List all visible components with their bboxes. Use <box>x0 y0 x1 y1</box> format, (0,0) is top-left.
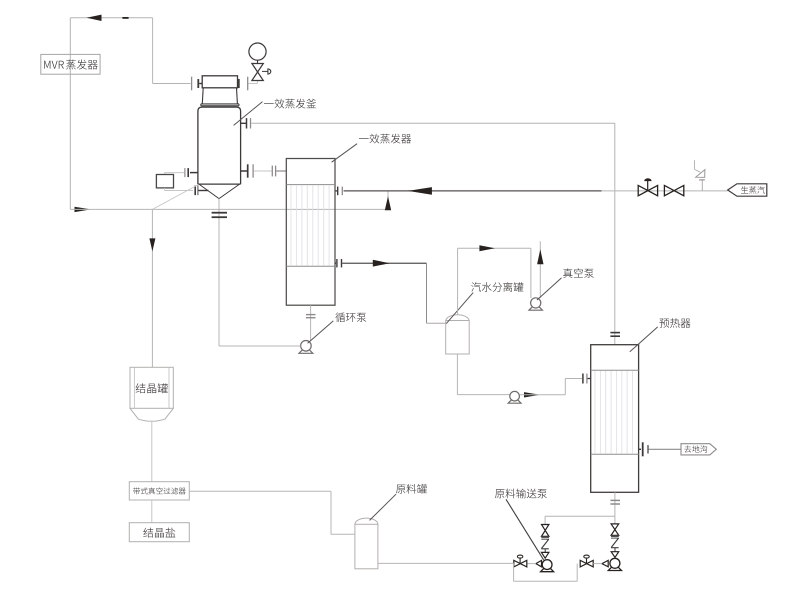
label box MVR evaporator <box>41 54 100 74</box>
wire instrument box to cone flange <box>164 188 166 191</box>
wire crystallizer to filter <box>151 421 153 482</box>
preheater bottom flange bars <box>610 499 620 501</box>
wire standby bypass loop <box>513 564 515 582</box>
flange column steam nozzle <box>335 190 337 192</box>
arrow down to crystallizer <box>149 238 155 251</box>
valve V1 with actuator on steam line <box>638 185 648 195</box>
wire vapor line horizontal y123 <box>251 122 615 124</box>
label text MVR蒸发器 <box>44 61 64 69</box>
leader 一效蒸发釜 <box>234 102 263 126</box>
flag 生蒸汽 raw steam <box>728 184 767 196</box>
flange preheater left nozzle <box>582 374 584 384</box>
tank 结晶罐 <box>130 367 173 408</box>
pump 循环泵 <box>301 341 312 352</box>
reducer right stack <box>614 548 616 552</box>
flange right stack <box>611 536 619 538</box>
box 结晶盐 crystal salt <box>129 523 189 542</box>
wire vapor line vertical x614.8 <box>614 123 616 344</box>
label 一效蒸发器 <box>359 134 411 144</box>
leader 真空泵 <box>537 278 562 300</box>
leader 汽水分离罐 <box>446 293 473 324</box>
flange preheater top nozzle <box>610 332 620 334</box>
pump condensate <box>510 391 520 401</box>
arrow left on steam line <box>408 187 432 195</box>
flex hose right stack <box>611 538 618 548</box>
column bottom flange bars <box>306 314 316 316</box>
column tube sheet lines <box>286 184 335 186</box>
wire vessel drain down <box>218 199 220 346</box>
vessel top-right nozzle flange <box>237 83 240 85</box>
vessel 一效蒸发釜 top head rectangle <box>202 76 237 88</box>
flange pair at column feed inlet <box>271 166 273 177</box>
label 带式真空过滤器 <box>133 487 186 494</box>
column bottom nozzle <box>310 305 312 341</box>
vessel neck <box>201 88 204 104</box>
pump 原料输送泵 right <box>610 558 620 568</box>
leader 一效蒸发器 <box>332 144 358 163</box>
wire MVR loop top horizontal <box>70 17 152 19</box>
relief fitting on steam line <box>701 180 703 191</box>
label 一效蒸发釜 <box>264 99 316 109</box>
suction reducer right pump <box>602 560 608 566</box>
vent valve with gauge circle <box>249 43 266 60</box>
instrument box <box>156 175 173 188</box>
separator 汽水分离罐 body <box>446 321 470 355</box>
leader 循环泵 <box>308 321 334 343</box>
wire feed line to column <box>254 170 272 172</box>
wire filter to salt box <box>151 500 153 523</box>
wire lower horizontal y209 <box>70 208 388 210</box>
reducer left stack <box>544 549 546 553</box>
wire vacuum pump vent <box>539 241 541 297</box>
box 带式真空过滤器 belt filter <box>129 482 189 500</box>
wire to vent valve <box>249 83 258 85</box>
wire steam line dark segment <box>344 190 602 192</box>
wire diagonal cone to junction <box>152 185 198 210</box>
vessel body <box>198 107 241 184</box>
wire MVR loop left vertical <box>69 18 71 210</box>
leader 原料罐 <box>370 494 397 520</box>
arrow right after condensate pump <box>524 392 540 397</box>
vessel lower-right nozzle flange <box>241 170 247 172</box>
cone drain flange <box>194 186 196 196</box>
drain flange bars <box>212 212 227 214</box>
crystallizer bowl bottom <box>130 408 173 421</box>
wire to vessel top-left nozzle <box>153 83 191 85</box>
wire condensate to preheater <box>520 394 566 396</box>
label 原料罐 <box>396 484 427 494</box>
valve left stack shutoff <box>542 525 549 531</box>
column vapor outlet flange <box>335 262 336 264</box>
wire feed header <box>545 515 615 517</box>
preheater tube sheet lines <box>591 369 639 371</box>
three-way valve right <box>580 560 587 567</box>
pump 真空泵 <box>531 298 541 308</box>
wire suction header from tank <box>378 562 514 564</box>
wire separator bottom <box>456 354 458 395</box>
wire to trench flag <box>649 448 681 450</box>
pump 原料输送泵 left <box>542 560 552 570</box>
arrow up at x388 <box>385 196 391 210</box>
label 结晶罐 <box>136 383 168 393</box>
wire up to steam line at x388 <box>387 191 389 210</box>
wire down to crystallizer <box>151 209 153 367</box>
label 原料输送泵 <box>495 489 547 499</box>
flange left stack <box>541 537 549 539</box>
label 真空泵 <box>563 268 594 278</box>
wire to instrument box <box>165 172 185 174</box>
wire steam line light segment <box>602 190 728 192</box>
arrow right on lower-left line <box>75 207 92 212</box>
vessel cone bottom <box>199 184 219 198</box>
flex hose left stack <box>541 539 548 549</box>
valve right stack shutoff <box>614 516 616 524</box>
vessel neck flange band <box>201 103 239 105</box>
preheater tube hatching <box>595 371 633 454</box>
wire down to vessel top nozzle <box>152 18 154 84</box>
dash tick on top line <box>122 17 128 19</box>
column 一效蒸发器 shell <box>286 159 335 306</box>
vessel top-left nozzle flange <box>191 77 193 91</box>
vessel left nozzle flange <box>190 172 198 174</box>
label 预热器 <box>659 318 690 328</box>
valve V2 on steam line <box>664 185 674 195</box>
wire separator top to vacuum pump <box>457 248 459 314</box>
three-way valve left <box>514 560 521 567</box>
column tube hatching <box>291 185 329 265</box>
wire column to separator <box>342 262 426 264</box>
label 汽水分离罐 <box>471 282 523 292</box>
suction reducer left pump <box>536 560 542 566</box>
preheater bottom nozzle <box>614 492 616 516</box>
preheater right nozzle flange <box>639 448 641 450</box>
wire filtrate to tank <box>189 490 331 492</box>
wire drain to circulation pump <box>219 345 301 347</box>
label 结晶盐 <box>143 528 175 538</box>
preheater 预热器 shell <box>591 345 639 493</box>
tank 原料罐 <box>355 524 378 569</box>
arrow up vacuum vent <box>537 249 543 264</box>
leader 预热器 <box>630 327 658 352</box>
flag 去地沟 to trench <box>681 444 716 455</box>
vessel upper-right nozzle flange <box>241 122 246 124</box>
arrow right on separator top line <box>479 245 495 251</box>
arrow left on top line <box>87 15 102 21</box>
arrow right to separator <box>373 260 390 267</box>
label 循环泵 <box>335 312 366 322</box>
leader 原料输送泵 <box>506 499 544 560</box>
